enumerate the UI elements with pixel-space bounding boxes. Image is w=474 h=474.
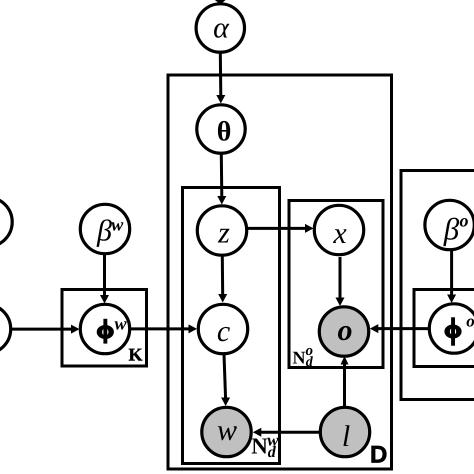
svg-text:l: l bbox=[342, 420, 350, 453]
svg-text:d: d bbox=[306, 355, 314, 370]
node beta^o (clipped at right) bbox=[425, 200, 474, 249]
svg-text:K: K bbox=[129, 344, 143, 364]
node theta bbox=[197, 105, 245, 153]
node left edge circle upper (clipped) bbox=[0, 197, 12, 246]
node beta^w bbox=[80, 204, 129, 253]
wire beta^w to phi^w bbox=[103, 255, 106, 297]
svg-text:β: β bbox=[96, 215, 112, 248]
svg-text:o: o bbox=[460, 211, 469, 231]
node x bbox=[314, 205, 363, 254]
wire z to x bbox=[248, 227, 307, 230]
plate right inner (phi^o box, clipped) bbox=[414, 290, 474, 367]
node w (observed, shaded) bbox=[202, 407, 251, 456]
svg-text:o: o bbox=[466, 312, 474, 331]
wire alpha to theta bbox=[219, 52, 223, 97]
wire phi^o to o bbox=[377, 327, 429, 330]
svg-text:α: α bbox=[213, 12, 230, 45]
wire z to c bbox=[221, 256, 224, 295]
svg-text:D: D bbox=[370, 442, 387, 469]
svg-text:N: N bbox=[293, 348, 306, 368]
label N_d^w bbox=[251, 430, 279, 461]
node c bbox=[198, 304, 247, 353]
label N_d^o bbox=[293, 343, 314, 370]
node l (observed, shaded) bbox=[320, 407, 369, 456]
svg-text:w: w bbox=[217, 414, 237, 447]
node o (observed, shaded) bbox=[319, 307, 368, 356]
node phi^o (clipped at right) bbox=[429, 304, 474, 353]
wire theta to z bbox=[220, 155, 224, 198]
svg-text:z: z bbox=[217, 217, 230, 250]
svg-text:c: c bbox=[217, 315, 230, 348]
svg-text:o: o bbox=[338, 314, 353, 347]
wire c to w bbox=[224, 355, 226, 400]
wire x to o bbox=[339, 257, 342, 299]
node left edge circle lower (clipped) bbox=[0, 304, 11, 353]
wire phi^w to c bbox=[131, 327, 191, 330]
plate N_d^w (inner word plate) bbox=[183, 188, 280, 464]
svg-text:d: d bbox=[268, 444, 277, 461]
wire l to o bbox=[343, 363, 346, 407]
node z bbox=[197, 206, 246, 255]
node phi^w bbox=[80, 304, 129, 353]
svg-text:w: w bbox=[114, 314, 127, 334]
wire l to w bbox=[260, 431, 320, 434]
wire arrowhead into alpha (clipped at top) bbox=[213, 0, 228, 4]
wire left circle to phi^w bbox=[11, 328, 73, 331]
svg-text:θ: θ bbox=[217, 117, 232, 148]
plate N_d^o (opinion plate) bbox=[289, 201, 383, 368]
node alpha bbox=[196, 4, 244, 52]
svg-text:N: N bbox=[251, 434, 268, 459]
svg-text:w: w bbox=[111, 215, 124, 235]
wire beta^o to phi^o bbox=[450, 251, 453, 297]
plate K (phi^w plate) bbox=[62, 290, 147, 367]
svg-text:β: β bbox=[443, 212, 460, 247]
svg-text:x: x bbox=[332, 217, 347, 250]
plate right outer (beta^o plate, clipped) bbox=[401, 171, 474, 400]
plate D (outer document plate) bbox=[168, 75, 392, 469]
